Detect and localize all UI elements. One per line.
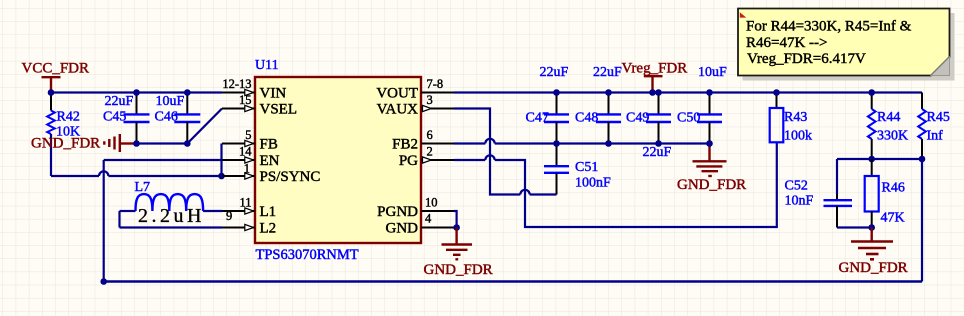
svg-text:GND_FDR: GND_FDR: [31, 135, 100, 151]
ground GND_FDR under R46: [839, 228, 908, 277]
pin PG 2: [399, 145, 454, 169]
wire FB2 rail (with hop over VAUX vertical): [454, 139, 710, 144]
junction dots left: [48, 89, 225, 179]
wire VOUT net top rail: [454, 91, 922, 93]
wire R42 bottom to PS/SYNC (with hop over EN vertical): [51, 134, 222, 176]
svg-text:2.2uH: 2.2uH: [138, 205, 205, 227]
resistor R43: [770, 93, 812, 144]
ground GND_FDR under C50: [677, 144, 746, 194]
resistor R42: [47, 93, 80, 140]
svg-text:R44: R44: [877, 110, 900, 125]
pin GND 4: [386, 212, 455, 237]
wire PGND/GND to ground: [453, 211, 460, 231]
svg-text:FB: FB: [260, 136, 278, 152]
svg-text:7-8: 7-8: [427, 77, 444, 91]
svg-text:GND_FDR: GND_FDR: [424, 262, 493, 278]
wire EN net: horizontal, left vertical, bottom long wire: [100, 160, 922, 285]
pin VIN 12-13: [222, 77, 286, 101]
svg-text:L7: L7: [135, 180, 151, 195]
capacitor C51: [544, 144, 611, 195]
svg-text:22uF: 22uF: [540, 65, 569, 80]
svg-text:47K: 47K: [881, 211, 905, 226]
svg-text:PG: PG: [399, 153, 418, 169]
pin L1 11: [222, 196, 276, 220]
svg-text:PGND: PGND: [377, 204, 418, 220]
svg-text:R42: R42: [57, 110, 80, 125]
capacitor C48: [575, 65, 622, 144]
svg-text:L1: L1: [260, 204, 277, 220]
svg-text:C51: C51: [575, 160, 598, 175]
pin FB 5: [222, 128, 278, 152]
svg-text:9: 9: [226, 209, 232, 223]
svg-text:1: 1: [244, 162, 250, 176]
svg-text:TPS63070RNMT: TPS63070RNMT: [256, 247, 359, 263]
svg-text:100k: 100k: [784, 129, 812, 144]
capacitor C46: [155, 93, 201, 144]
wire PG net: [454, 142, 777, 227]
pin VSEL 15: [222, 93, 297, 117]
svg-text:L2: L2: [260, 220, 277, 236]
pin VOUT 7-8: [376, 77, 454, 101]
svg-text:GND: GND: [386, 220, 419, 236]
svg-text:R43: R43: [784, 110, 807, 125]
svg-text:R46=47K -->: R46=47K -->: [746, 35, 828, 51]
svg-text:R46: R46: [882, 181, 905, 196]
svg-text:11: 11: [239, 196, 251, 210]
capacitor C52: [785, 159, 872, 228]
svg-text:Vreg_FDR=6.417V: Vreg_FDR=6.417V: [747, 51, 866, 67]
svg-text:22uF: 22uF: [105, 94, 134, 109]
svg-text:VCC_FDR: VCC_FDR: [22, 60, 90, 76]
capacitor C49: [626, 93, 672, 161]
resistor R44: [868, 93, 908, 160]
pin L2 9: [222, 209, 276, 236]
svg-text:22uF: 22uF: [593, 65, 622, 80]
svg-text:14: 14: [239, 145, 252, 159]
svg-text:22uF: 22uF: [643, 145, 672, 160]
wire GND rail under C45/C46: [137, 142, 188, 144]
wire VAUX net: [454, 109, 557, 195]
resistor R46: [865, 159, 905, 231]
svg-text:Vreg_FDR: Vreg_FDR: [622, 61, 688, 77]
pin EN 14: [222, 145, 280, 169]
pin FB2 6: [392, 128, 454, 152]
svg-text:10uF: 10uF: [698, 65, 727, 80]
power flag Vreg_FDR: [622, 61, 688, 93]
svg-text:5: 5: [245, 128, 251, 142]
svg-text:For R44=330K, R45=Inf &: For R44=330K, R45=Inf &: [746, 19, 912, 35]
junction dots right: [553, 89, 875, 147]
svg-text:C49: C49: [626, 111, 649, 126]
svg-text:GND_FDR: GND_FDR: [839, 260, 908, 276]
pin VAUX 3: [377, 93, 454, 117]
svg-text:2: 2: [427, 145, 433, 159]
svg-text:PS/SYNC: PS/SYNC: [260, 169, 321, 185]
svg-text:VIN: VIN: [260, 85, 287, 101]
svg-text:330K: 330K: [877, 129, 908, 144]
svg-text:VSEL: VSEL: [260, 101, 298, 117]
svg-text:U11: U11: [255, 58, 279, 73]
note N1: [738, 9, 955, 81]
pin PGND 10: [377, 196, 454, 220]
svg-text:R45: R45: [927, 110, 950, 125]
power flag VCC_FDR: [22, 60, 90, 92]
svg-text:C45: C45: [103, 110, 126, 125]
svg-text:3: 3: [427, 93, 433, 107]
resistor R45: [918, 93, 950, 160]
wire diagonal C46 bottom to VSEL pin: [187, 109, 222, 144]
svg-text:12-13: 12-13: [222, 77, 251, 91]
svg-text:FB2: FB2: [392, 136, 418, 152]
svg-text:10uF: 10uF: [156, 94, 185, 109]
svg-text:C48: C48: [575, 111, 598, 126]
wire L1/L2 loop: [120, 211, 223, 228]
wire FB to PS/SYNC vertical link: [220, 144, 222, 177]
svg-text:EN: EN: [260, 153, 280, 169]
svg-text:C46: C46: [155, 110, 178, 125]
svg-text:6: 6: [427, 128, 433, 142]
svg-text:C47: C47: [526, 111, 549, 126]
svg-text:VOUT: VOUT: [376, 85, 418, 101]
inductor L7: [135, 180, 205, 227]
capacitor C47: [526, 65, 570, 144]
IC U11: [255, 58, 421, 263]
svg-text:VAUX: VAUX: [377, 101, 419, 117]
capacitor C45: [103, 93, 150, 144]
wire VIN net: VCC junction to VIN pin: [51, 91, 222, 93]
capacitor C50: [677, 65, 727, 144]
wire divider node rail and R45 drop to bottom wire: [837, 156, 925, 282]
ground GND_FDR under pin 4: [424, 228, 493, 278]
svg-text:C52: C52: [785, 179, 808, 194]
svg-text:C50: C50: [677, 111, 700, 126]
svg-text:100nF: 100nF: [575, 176, 611, 191]
svg-text:10nF: 10nF: [785, 194, 814, 209]
pin PS/SYNC 1: [222, 162, 320, 185]
svg-text:10: 10: [425, 196, 438, 210]
svg-text:4: 4: [425, 212, 432, 226]
svg-text:GND_FDR: GND_FDR: [677, 177, 746, 193]
ground GND_FDR (sideways earth, left): [31, 134, 137, 152]
svg-text:Inf: Inf: [927, 129, 944, 144]
svg-text:15: 15: [239, 93, 252, 107]
